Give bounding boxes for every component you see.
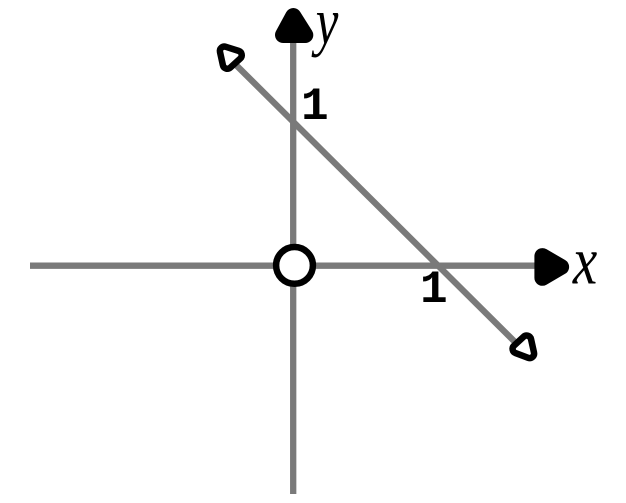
svg-text:x: x [572, 224, 597, 299]
svg-text:1: 1 [420, 264, 448, 316]
svg-text:y: y [311, 0, 339, 58]
svg-text:1: 1 [301, 81, 329, 133]
